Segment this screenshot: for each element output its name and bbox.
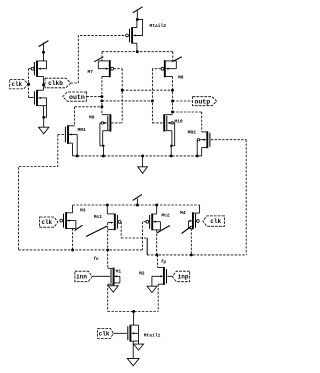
node outp gate-rail junction xyxy=(171,89,174,92)
node Mc2/M2 fp junction xyxy=(155,253,158,256)
node outn port junction xyxy=(100,95,103,98)
slash mark Mc2 drain xyxy=(157,226,170,234)
transistor M2 xyxy=(163,268,165,285)
wire M8 gate to outn rail xyxy=(152,68,161,70)
node outp MR2 junction xyxy=(171,111,174,114)
clk port (row4 right) xyxy=(203,216,225,226)
wire M1 drain to fn xyxy=(107,250,109,268)
transistor M7 xyxy=(109,60,111,77)
node M4-fp junction xyxy=(190,253,193,256)
wire clk gate bus xyxy=(28,69,30,98)
wire drop to M7 source xyxy=(101,52,103,61)
wire cross rail outp (M7 gate to M8 drain) xyxy=(122,89,172,91)
clk port (tail) xyxy=(98,328,114,338)
node outn MR1 junction xyxy=(100,105,103,108)
svg-text:MR2: MR2 xyxy=(188,129,197,135)
wire drop to M8 source xyxy=(172,52,174,61)
node M9 source junction xyxy=(102,154,105,157)
wire fp rail xyxy=(147,254,246,256)
vdd supply bar (inverter) xyxy=(39,41,49,47)
svg-text:M4: M4 xyxy=(180,210,186,216)
clkb output port xyxy=(45,78,71,88)
wire latch source rail xyxy=(77,155,197,157)
wire fn rail xyxy=(18,249,142,251)
ground (latch) xyxy=(142,156,144,167)
ground (Mtail1 bulk) xyxy=(133,344,143,350)
node Mc1 source junction xyxy=(106,204,109,207)
wire MR2 gate route to fp bus xyxy=(211,139,246,141)
wire Mtail2 drain rail xyxy=(102,51,173,53)
wire M7 drain (outn column) xyxy=(101,77,103,115)
svg-text:M8: M8 xyxy=(178,75,184,81)
svg-text:Mc1: Mc1 xyxy=(94,214,103,220)
svg-text:clk: clk xyxy=(210,218,221,225)
svg-text:M9: M9 xyxy=(89,115,95,121)
svg-text:M2: M2 xyxy=(139,271,145,277)
node Mc1/M1 fn junction xyxy=(106,248,109,251)
ground (M1 bulk) xyxy=(113,282,120,284)
transistor Mtail2 xyxy=(131,27,133,43)
node outp port junction xyxy=(171,100,174,103)
vdd supply bar (top) xyxy=(133,7,143,13)
inp input port xyxy=(172,271,189,282)
transistor M9 xyxy=(109,114,111,131)
wire M9 source to rail xyxy=(99,123,101,146)
node M10 source junction xyxy=(170,154,173,157)
transistor M8 xyxy=(164,60,166,77)
svg-text:fn: fn xyxy=(94,257,100,262)
wire M9 gate from outp xyxy=(111,122,122,124)
svg-text:inp: inp xyxy=(178,273,189,280)
ground (main) xyxy=(127,358,139,365)
node Mtail2 source junction xyxy=(136,18,139,21)
wire M8 drain (outp column) xyxy=(172,77,174,115)
wire outn port to latch xyxy=(87,96,102,98)
transistor M1 xyxy=(113,268,115,285)
transistor Mc2 xyxy=(151,214,153,231)
svg-text:M10: M10 xyxy=(174,119,183,125)
wire M2 source to tail rail xyxy=(157,284,159,311)
node row4 vdd junction xyxy=(136,204,139,207)
svg-text:M1: M1 xyxy=(116,268,122,274)
outn output port xyxy=(63,92,87,101)
transistor M10 xyxy=(163,114,165,131)
node M9 source merge xyxy=(102,145,104,147)
wire Mtail1 source to ground xyxy=(132,341,134,358)
node M8 gate/outn junction xyxy=(151,99,154,102)
node MR2 source junction xyxy=(196,154,199,157)
wire MR2 source to rail xyxy=(201,147,203,156)
node latch tail junction xyxy=(141,154,144,157)
node vdd-inv junction xyxy=(42,51,45,54)
wire clkb net to Mtail2 gate xyxy=(71,35,125,83)
transistor M4 xyxy=(192,212,194,229)
wire Mc2 drain to fp rail xyxy=(156,230,158,255)
wire tail rail xyxy=(108,311,159,313)
wire row4 supply rail xyxy=(73,204,200,206)
wire Mc1 drain to fn rail xyxy=(107,223,109,250)
transistor Mc1 xyxy=(114,214,116,231)
svg-text:M3: M3 xyxy=(80,207,86,213)
transistor MR1 xyxy=(67,125,69,144)
slash mark Mc1 net xyxy=(86,226,107,237)
wire Mc2 gate to fn xyxy=(143,221,146,223)
ground (M2 bulk) xyxy=(147,286,157,292)
svg-text:clkb: clkb xyxy=(48,80,63,87)
ground (below clk inverter) xyxy=(43,117,45,127)
node inverter-source junction xyxy=(42,116,45,119)
wire cross rail outn (M7 drain to M8 gate) xyxy=(102,100,152,102)
svg-text:Mtail2: Mtail2 xyxy=(150,23,167,29)
wire M10 source to rail xyxy=(174,123,176,146)
svg-text:Mtail1: Mtail1 xyxy=(144,333,161,339)
node Mc2 source junction xyxy=(155,204,158,207)
clk input port xyxy=(10,80,28,89)
slash mark M3 drain xyxy=(75,225,83,230)
svg-text:clk: clk xyxy=(41,219,52,226)
node virtual-vdd junction xyxy=(136,50,139,53)
transistor Minv-P (PMOS of clk inverter) xyxy=(36,61,38,77)
clk port (row4 left) xyxy=(40,217,58,227)
svg-text:clk: clk xyxy=(99,330,110,337)
node M10 source merge xyxy=(170,145,172,147)
node clkb output junction xyxy=(42,83,45,86)
wire M3 drain to fn rail xyxy=(72,228,74,250)
wire Mc1 gate to fp rail xyxy=(120,221,123,223)
svg-text:MR1: MR1 xyxy=(78,127,87,133)
wire M2 drain riser xyxy=(157,255,159,268)
vdd supply bar (row4) xyxy=(136,199,138,205)
transistor Minv-N (NMOS of clk inverter) xyxy=(36,90,38,106)
svg-text:outn: outn xyxy=(69,94,85,101)
wire M7 gate to outp rail xyxy=(114,68,123,70)
vdd supply bar (M8 source) xyxy=(172,57,182,62)
svg-text:M7: M7 xyxy=(88,69,94,75)
wire MR1 gate route to fn bus xyxy=(58,134,65,136)
svg-text:clk: clk xyxy=(11,81,22,88)
wire M10 gate from outn xyxy=(152,122,163,124)
node tail junction xyxy=(132,310,135,313)
svg-text:outp: outp xyxy=(194,98,210,105)
transistor M3 xyxy=(65,212,67,229)
node clk junction xyxy=(27,83,30,86)
wire MR1 source to rail xyxy=(72,143,74,156)
inn input port xyxy=(75,271,92,282)
transistor MR2 xyxy=(206,131,208,148)
node outn cross-rail junction xyxy=(100,99,103,102)
svg-text:inn: inn xyxy=(76,273,87,280)
slash mark M4 drain xyxy=(182,226,192,234)
svg-text:Mc2: Mc2 xyxy=(161,212,170,218)
transistor Mtail1 xyxy=(129,325,131,342)
wire outp port to latch xyxy=(173,100,193,102)
node MR1 source junction xyxy=(76,154,79,157)
svg-text:fp: fp xyxy=(161,260,167,265)
node M3-fn junction xyxy=(71,248,74,251)
outp output port xyxy=(193,97,217,106)
vdd supply bar (M7 source) xyxy=(94,57,103,62)
wire M4 drain to fp rail xyxy=(190,229,192,255)
wire MR1 drain to outn xyxy=(74,107,76,126)
wire MR2 drain to outp xyxy=(201,112,203,132)
node M7 gate/outp junction xyxy=(121,89,124,92)
wire M1 source to tail rail xyxy=(107,284,109,311)
